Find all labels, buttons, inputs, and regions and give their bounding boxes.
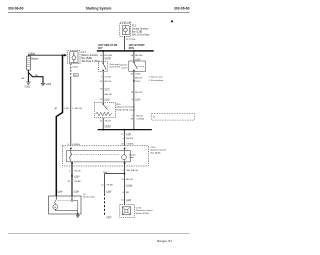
connector label C1002 on fused feed xyxy=(72,67,79,69)
svg-text:Box (BJB): Box (BJB) xyxy=(151,152,161,154)
wire label pair 11 YE-LB xyxy=(100,120,111,122)
wire label RD-LB xyxy=(135,77,142,79)
battery junction box fuse (dashed box) xyxy=(68,51,80,64)
off-page link (dashed side box) xyxy=(152,114,195,121)
svg-text:RD-LB: RD-LB xyxy=(136,115,143,117)
svg-text:2: 2 xyxy=(73,54,75,56)
svg-text:C156a: C156a xyxy=(105,126,112,128)
powertrain control module (dashed box) xyxy=(120,205,135,218)
header left page number xyxy=(8,7,24,11)
wire relay contact internal drop xyxy=(70,159,72,162)
svg-text:RD: RD xyxy=(126,192,130,194)
svg-text:11: 11 xyxy=(100,120,103,122)
svg-text:Starter motor: Starter motor xyxy=(83,196,95,199)
svg-text:HOT IN START: HOT IN START xyxy=(129,44,146,47)
svg-text:8/10: 8/10 xyxy=(116,104,121,106)
wire fused feed to starter relay (vertical) xyxy=(70,76,72,146)
wire tee to TR indicator branch xyxy=(105,173,126,175)
svg-text:C170: C170 xyxy=(105,89,111,91)
ground G101 xyxy=(25,82,31,88)
central junction box label above xyxy=(120,21,131,24)
relay terminal pin (contact input) xyxy=(70,148,72,150)
svg-text:C202: C202 xyxy=(135,74,141,76)
wire relay output to starter solenoid xyxy=(71,162,73,196)
connector label C270b on CJB output xyxy=(126,39,136,41)
svg-text:31: 31 xyxy=(121,179,124,181)
wire ignition switch output down xyxy=(133,71,135,129)
svg-text:C130: C130 xyxy=(74,176,80,178)
svg-text:13: 13 xyxy=(67,181,70,183)
svg-text:303-06-60: 303-06-60 xyxy=(8,7,24,11)
svg-text:C270: C270 xyxy=(106,217,112,219)
svg-text:10A, 10 is at fuse: 10A, 10 is at fuse xyxy=(132,34,150,37)
ground G102 xyxy=(41,83,52,86)
central junction box fuse (dashed box) xyxy=(120,24,131,37)
svg-text:C1035b: C1035b xyxy=(136,118,144,120)
connector label above relay xyxy=(121,144,134,146)
relay coil output terminal pin xyxy=(124,162,126,164)
starter relay K1 body xyxy=(66,151,130,162)
svg-text:S110: S110 xyxy=(74,75,80,77)
wire label BK (right ground wire) xyxy=(35,75,38,77)
battery B1 xyxy=(27,56,31,70)
svg-text:YE-BK: YE-BK xyxy=(74,181,81,183)
svg-text:F1.7: F1.7 xyxy=(82,52,87,54)
svg-text:10: 10 xyxy=(131,55,134,57)
wire label pair on fused feed xyxy=(72,108,82,110)
svg-text:22 C270b: 22 C270b xyxy=(126,39,136,41)
connector label row E xyxy=(100,99,111,101)
footer text xyxy=(157,239,172,243)
wire label pair 16 RD-WH xyxy=(100,55,112,57)
wire DTR output to bus 2 xyxy=(102,118,104,130)
connector label C175b xyxy=(126,185,133,187)
connector label C126 xyxy=(121,199,132,201)
svg-text:YE-LB: YE-LB xyxy=(105,120,112,122)
wire label 13A above tee xyxy=(103,171,107,174)
wire label pair 32 RD-LB xyxy=(131,74,142,76)
wire battery cable to starter (thick vertical with jog) xyxy=(56,55,62,196)
svg-text:C270b: C270b xyxy=(105,76,112,78)
central junction box label text xyxy=(132,26,150,37)
svg-text:16: 16 xyxy=(100,55,103,57)
connector label above relay contact input xyxy=(67,144,80,146)
header right page number xyxy=(174,7,190,11)
svg-text:12: 12 xyxy=(121,134,124,136)
svg-text:32: 32 xyxy=(131,74,134,76)
svg-text:Digital Transmission: Digital Transmission xyxy=(116,106,134,109)
battery junction box (dashed enclosure with starter relay) xyxy=(62,146,148,166)
wire label pair 31 RD-LB (coil to PCM) xyxy=(121,179,133,181)
svg-text:13: 13 xyxy=(131,92,134,94)
svg-text:BK-WH: BK-WH xyxy=(135,55,143,57)
svg-text:RUN: RUN xyxy=(129,48,134,50)
wire label BK (left ground wire) xyxy=(22,78,25,80)
relay output terminal pin xyxy=(71,162,73,164)
starter motor name label xyxy=(83,194,95,199)
svg-text:41: 41 xyxy=(153,117,156,119)
ignition switch label xyxy=(120,64,128,70)
svg-text:M: M xyxy=(55,207,57,209)
svg-text:Ranger '01: Ranger '01 xyxy=(157,239,172,243)
footer rule xyxy=(8,233,190,235)
svg-text:C175: C175 xyxy=(105,99,111,101)
svg-text:Box (BJB): Box (BJB) xyxy=(82,58,93,60)
relay name label xyxy=(129,153,136,159)
svg-text:303-06-60: 303-06-60 xyxy=(174,7,190,11)
battery name label xyxy=(31,58,39,61)
wire fused battery feed (dashed exit below BJB) xyxy=(70,64,72,77)
wire label pair row D xyxy=(105,94,113,96)
wire dashed continuation to other circuit xyxy=(104,194,106,216)
connector labels mid (stacked) xyxy=(131,115,145,120)
svg-text:WH-PK: WH-PK xyxy=(105,94,113,96)
relay actuation dashed link xyxy=(74,154,120,156)
svg-text:30A Fuse 2 (30A): 30A Fuse 2 (30A) xyxy=(82,60,100,63)
wire label pair row B xyxy=(100,81,112,83)
svg-text:switch (CPP): switch (CPP) xyxy=(109,65,120,68)
digital transmission range sensor (dashed box) xyxy=(94,103,115,118)
svg-text:C175b: C175b xyxy=(126,185,133,187)
svg-text:C126: C126 xyxy=(126,199,132,201)
svg-text:C175: C175 xyxy=(136,207,142,209)
corner marker glyph xyxy=(171,20,174,23)
wire label 4 WH-PK xyxy=(122,138,133,140)
svg-text:BK: BK xyxy=(22,78,25,80)
arrow into battery junction box xyxy=(64,54,67,57)
wire relay coil to PCM xyxy=(124,162,126,204)
svg-text:C270b: C270b xyxy=(105,58,112,60)
wire left branch from bus to CPP switch xyxy=(102,51,104,62)
wire label pair 4 RD xyxy=(122,192,129,194)
svg-text:2. Run position: 2. Run position xyxy=(149,79,164,82)
splice S210 node xyxy=(133,80,141,83)
svg-text:Box (CJB): Box (CJB) xyxy=(132,32,143,34)
wire right branch from bus to ignition switch xyxy=(133,51,135,61)
svg-text:13A: 13A xyxy=(103,171,107,174)
solenoid B terminal wire xyxy=(71,196,73,200)
svg-text:12: 12 xyxy=(101,184,104,186)
connector label pair near DTR xyxy=(132,99,141,101)
wire battery negative stub to G101 xyxy=(27,70,29,82)
clutch pedal position switch label xyxy=(109,63,120,68)
wire bus 2 to starter relay coil xyxy=(124,130,126,146)
relay coil L1 xyxy=(122,149,127,162)
connector label 12 C1035b xyxy=(121,134,132,136)
svg-text:RD-LB: RD-LB xyxy=(105,81,112,83)
relay contact blade xyxy=(69,149,72,159)
svg-text:12: 12 xyxy=(121,199,124,201)
solenoid terminal S xyxy=(54,196,56,203)
header center title xyxy=(86,7,112,11)
battery junction box label text xyxy=(82,52,100,63)
connector label C156a xyxy=(105,126,112,128)
svg-text:C1002: C1002 xyxy=(72,67,79,69)
wire branch down left from tee xyxy=(104,174,106,194)
connector label C161a xyxy=(57,191,63,193)
svg-text:Starting System: Starting System xyxy=(86,7,112,11)
svg-text:Range (DTR) sensor: Range (DTR) sensor xyxy=(116,109,135,111)
svg-text:CKT: CKT xyxy=(98,48,103,50)
svg-text:G102: G102 xyxy=(46,84,52,86)
svg-text:BK-OG: BK-OG xyxy=(75,108,82,110)
svg-text:Starter: Starter xyxy=(129,153,136,156)
connector label C262 (branch) xyxy=(106,191,112,193)
svg-text:1. Start in start: 1. Start in start xyxy=(149,76,164,79)
connector label C270 (branch end) xyxy=(106,217,112,219)
ground G starter case xyxy=(76,214,80,218)
svg-text:C175: C175 xyxy=(135,99,141,101)
wire label pair 13 RD-LB lower xyxy=(131,92,143,94)
svg-text:12: 12 xyxy=(83,194,86,196)
wire label pair 10 BK-WH xyxy=(131,55,143,57)
svg-text:32: 32 xyxy=(100,81,103,83)
svg-text:Powertrain Control: Powertrain Control xyxy=(136,209,153,212)
connector label C270b left branch xyxy=(105,58,112,60)
svg-text:C16b: C16b xyxy=(74,191,80,193)
wire label row 13A 14A xyxy=(122,169,138,172)
svg-text:Battery: Battery xyxy=(31,58,39,61)
svg-text:30: 30 xyxy=(121,144,124,146)
wire battery positive feed (horizontal) xyxy=(28,54,64,57)
wire motor to case ground xyxy=(55,201,78,215)
connector label C161b xyxy=(74,191,80,193)
splice S110 boxed label xyxy=(73,73,79,77)
svg-text:C140: C140 xyxy=(126,134,132,136)
wire label pair on battery cable xyxy=(55,107,70,110)
bus hot-in-start caption right xyxy=(129,44,146,50)
node battery feed tee xyxy=(62,55,64,56)
starter motor armature M xyxy=(53,203,58,209)
clutch pedal position switch (dashed box) xyxy=(99,62,108,72)
svg-text:YE-LB: YE-LB xyxy=(74,170,81,172)
header rule xyxy=(8,11,190,13)
svg-text:C115: C115 xyxy=(151,147,157,149)
svg-text:LEFT SIDE OF RN: LEFT SIDE OF RN xyxy=(98,45,118,47)
svg-text:1: 1 xyxy=(69,170,71,172)
solenoid contact dashed link xyxy=(58,200,73,202)
starter motor M1 case xyxy=(49,196,82,214)
svg-text:A1: A1 xyxy=(55,107,58,110)
svg-text:F2.2: F2.2 xyxy=(132,26,137,28)
svg-text:RD-LB: RD-LB xyxy=(126,179,133,181)
wire battery negative branch to G102 xyxy=(28,73,43,84)
wire CPP to DTR sensor xyxy=(102,72,104,103)
fuse F2 element xyxy=(124,26,128,35)
bus node B2 (start feed rail) xyxy=(98,129,152,131)
connector label C100a (battery positive) xyxy=(28,53,35,55)
svg-text:YE-BK: YE-BK xyxy=(106,184,113,186)
svg-text:Ignition: Ignition xyxy=(120,64,128,67)
svg-text:C202: C202 xyxy=(135,59,141,61)
relay terminal pin (coil input) xyxy=(124,148,126,150)
svg-text:Module (PCM): Module (PCM) xyxy=(136,213,149,215)
wire label pair 11 YE-LB (relay output) xyxy=(69,170,81,172)
svg-text:S210: S210 xyxy=(135,81,141,83)
svg-text:30: 30 xyxy=(131,118,134,120)
bus node B1 (hot feed rail) xyxy=(97,50,154,52)
ignition switch position notes xyxy=(149,76,164,82)
battery junction box name label xyxy=(151,147,167,154)
wire label pair 12 YE-BK (branch) xyxy=(101,184,113,186)
node S220 on relay output xyxy=(71,175,80,178)
svg-text:C262: C262 xyxy=(106,191,112,193)
svg-text:relay: relay xyxy=(129,156,135,159)
svg-text:switch: switch xyxy=(121,66,128,69)
PCM driver block U1 xyxy=(122,207,130,215)
ignition switch SW1 xyxy=(129,61,146,71)
svg-text:10: 10 xyxy=(100,99,103,101)
wire label pair 13 YE-BK xyxy=(67,181,81,183)
svg-text:RD-LB: RD-LB xyxy=(135,92,142,94)
svg-text:RD-LB: RD-LB xyxy=(135,77,142,79)
wire label pair row A xyxy=(101,76,112,78)
svg-text:13A, 14A, 4A: 13A, 14A, 4A xyxy=(126,169,138,172)
svg-text:1 RD: 1 RD xyxy=(64,108,69,110)
svg-text:C16a: C16a xyxy=(57,191,63,193)
wire CJB output down to bus xyxy=(124,36,126,50)
PCM name label xyxy=(136,207,153,215)
svg-text:WH-PK: WH-PK xyxy=(126,138,134,140)
connector label row C xyxy=(100,89,111,91)
DTR sensor label xyxy=(116,104,135,111)
connector label on ignition feed xyxy=(135,59,141,61)
bus hot-in-start caption left xyxy=(98,45,118,50)
svg-text:13: 13 xyxy=(100,89,103,91)
fuse F1 element xyxy=(72,52,76,63)
svg-text:C1035b: C1035b xyxy=(126,144,134,146)
svg-text:2: 2 xyxy=(72,108,74,110)
svg-text:G101: G101 xyxy=(25,86,31,88)
svg-text:Battery Junction: Battery Junction xyxy=(82,54,99,57)
svg-text:Central Junction: Central Junction xyxy=(132,28,149,31)
svg-text:Battery Junction: Battery Junction xyxy=(151,149,167,152)
svg-text:RD-WH: RD-WH xyxy=(105,55,113,57)
